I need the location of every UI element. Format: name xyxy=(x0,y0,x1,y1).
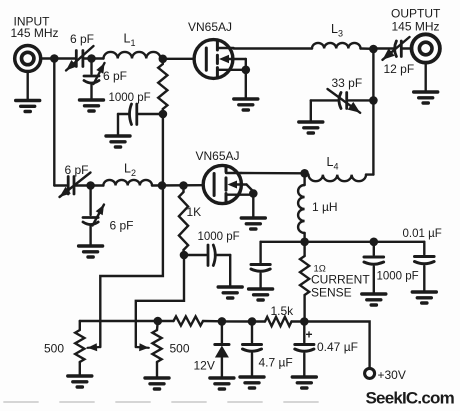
ground xyxy=(299,122,323,133)
wire xyxy=(372,49,374,100)
wire xyxy=(118,113,130,115)
svg-text:145 MHz: 145 MHz xyxy=(11,26,59,40)
svg-text:+30V: +30V xyxy=(378,368,406,382)
wire xyxy=(100,186,163,348)
transistor Q2 channel xyxy=(225,166,228,172)
svg-text:1000 pF: 1000 pF xyxy=(109,92,151,104)
wire xyxy=(305,241,374,243)
transistor Q2 gate bar xyxy=(213,174,216,196)
svg-text:1.5k: 1.5k xyxy=(271,304,295,318)
ground xyxy=(241,218,265,229)
capacitor C9 plates xyxy=(251,263,270,266)
wire xyxy=(245,59,247,70)
capacitor C4 arrow xyxy=(383,37,410,60)
wire xyxy=(373,242,375,255)
capacitor C11 0.01 uF plates xyxy=(415,255,435,258)
ground xyxy=(292,377,316,388)
transistor Q2 source stub xyxy=(226,193,253,195)
svg-text:12 pF: 12 pF xyxy=(384,62,415,76)
transistor Q1 VN65AJ body xyxy=(194,40,233,79)
transistor Q2 drain stub xyxy=(226,172,241,174)
wire xyxy=(74,184,91,186)
capacitor C2 6 pF plates xyxy=(84,75,99,78)
node xyxy=(86,181,95,190)
potentiometer R6 500 xyxy=(79,321,81,330)
node bias tap xyxy=(158,181,167,190)
transistor Q1 source arrow xyxy=(219,55,229,63)
wire xyxy=(361,47,374,50)
svg-text:1 µH: 1 µH xyxy=(312,200,338,214)
node xyxy=(87,54,96,63)
svg-text:VN65AJ: VN65AJ xyxy=(188,20,232,34)
wire xyxy=(162,114,164,186)
ground xyxy=(362,294,386,305)
svg-text:1K: 1K xyxy=(187,205,202,219)
inductor L5 1uH xyxy=(298,185,305,233)
wire xyxy=(92,57,104,59)
capacitor C7 6 pF plates xyxy=(83,216,98,219)
diode D1 12V zener xyxy=(221,321,223,344)
ground xyxy=(68,376,92,387)
capacitor C8 1000 pF plates xyxy=(207,245,210,266)
transistor Q1 gate bar xyxy=(205,48,208,70)
svg-text:6 pF: 6 pF xyxy=(70,32,94,46)
wire xyxy=(401,47,411,49)
svg-text:4.7 µF: 4.7 µF xyxy=(259,356,293,370)
node xyxy=(248,317,257,326)
capacitor C1 arrow xyxy=(66,46,94,71)
wire xyxy=(27,71,29,100)
wire xyxy=(259,242,261,263)
node xyxy=(159,110,168,119)
terminal +30V xyxy=(365,368,375,378)
wire xyxy=(91,184,104,186)
inductor L1 xyxy=(104,52,161,59)
wire xyxy=(222,320,252,323)
ground xyxy=(210,378,234,389)
svg-text:145 MHz: 145 MHz xyxy=(392,20,440,34)
svg-text:VN65AJ: VN65AJ xyxy=(196,149,240,163)
capacitor C13 0.47uF xyxy=(303,322,305,343)
transistor Q2 source arrow xyxy=(228,181,238,189)
ground xyxy=(145,378,169,389)
wire xyxy=(139,113,163,115)
node drain2 junction xyxy=(300,169,309,178)
wire xyxy=(161,57,163,59)
wiper arrow pot2 xyxy=(136,346,149,349)
wire xyxy=(54,184,66,186)
node source2 xyxy=(249,189,258,198)
scan artifact line xyxy=(4,401,320,403)
node xyxy=(300,238,309,247)
capacitor C5 arrow xyxy=(328,89,361,113)
svg-text:6 pF: 6 pF xyxy=(65,163,89,177)
wire xyxy=(234,47,313,49)
capacitor C6 6 pF plates xyxy=(67,177,70,195)
transistor Q1 source stub xyxy=(217,69,245,71)
wire xyxy=(136,255,184,347)
connector J1 INPUT coax xyxy=(15,46,41,72)
wire xyxy=(241,172,305,175)
capacitor C6 arrow xyxy=(60,173,91,198)
svg-text:CURRENT: CURRENT xyxy=(311,273,370,287)
wire xyxy=(89,186,91,216)
wire xyxy=(53,59,55,186)
wire xyxy=(259,274,261,290)
transistor Q1 drain stub xyxy=(217,47,233,49)
capacitor C12 4.7uF xyxy=(251,322,253,343)
wire xyxy=(152,184,203,187)
wire xyxy=(83,57,92,59)
resistor R2 1K xyxy=(182,186,184,193)
wire xyxy=(373,47,394,49)
svg-text:+: + xyxy=(306,328,313,342)
transistor Q2 VN65AJ body xyxy=(203,165,241,203)
svg-text:500: 500 xyxy=(44,342,64,356)
svg-text:500: 500 xyxy=(170,342,190,356)
svg-text:L3: L3 xyxy=(331,22,343,39)
wire xyxy=(349,99,374,101)
svg-text:L2: L2 xyxy=(124,162,136,179)
wire xyxy=(245,70,247,99)
wire xyxy=(366,173,373,175)
node pot2 top xyxy=(154,317,163,326)
svg-text:1000 pF: 1000 pF xyxy=(198,231,240,243)
ground xyxy=(80,100,104,111)
wire xyxy=(374,241,425,243)
svg-text:SENSE: SENSE xyxy=(311,286,352,300)
wire xyxy=(252,194,254,219)
wire xyxy=(423,266,425,292)
resistor R3 1 ohm xyxy=(303,242,305,256)
wiper arrow pot1 xyxy=(88,346,101,349)
wire xyxy=(54,57,75,59)
svg-text:12V: 12V xyxy=(194,359,215,373)
svg-text:0.01 µF: 0.01 µF xyxy=(403,228,442,240)
ground xyxy=(218,287,242,298)
svg-text:0.47 µF: 0.47 µF xyxy=(317,340,358,354)
wire xyxy=(423,242,425,255)
capacitor C3 1000 pF plates xyxy=(135,104,138,125)
wire xyxy=(40,57,54,59)
wire xyxy=(90,84,92,100)
potentiometer R7 500 xyxy=(156,321,159,330)
wire xyxy=(311,99,339,101)
ground xyxy=(234,99,258,110)
wire xyxy=(261,241,305,243)
node xyxy=(300,317,309,326)
connector J2 OUPTUT coax xyxy=(412,34,440,62)
ground xyxy=(414,92,438,103)
ground xyxy=(412,292,436,303)
inductor L2 xyxy=(103,180,152,186)
svg-text:33 pF: 33 pF xyxy=(332,76,363,90)
node gate1 xyxy=(159,55,168,64)
capacitor C5 33 pF plates xyxy=(345,93,348,109)
ground xyxy=(106,136,130,147)
node zener top xyxy=(218,317,227,326)
resistor R4 xyxy=(158,320,174,322)
capacitor C4 12 pF plates xyxy=(395,41,397,57)
wire xyxy=(304,322,369,369)
wire xyxy=(80,320,158,322)
svg-text:L4: L4 xyxy=(327,155,339,172)
capacitor C10 1000 pF plates xyxy=(364,256,384,259)
node xyxy=(180,251,189,260)
ground xyxy=(16,101,40,112)
wire xyxy=(163,58,194,60)
svg-text:6 pF: 6 pF xyxy=(110,219,134,233)
ground xyxy=(240,377,264,388)
svg-text:L1: L1 xyxy=(124,32,136,49)
capacitor C7 arrow xyxy=(93,205,105,226)
node output junction xyxy=(369,45,378,54)
resistor R1 xyxy=(162,59,164,64)
node xyxy=(370,238,379,247)
wire xyxy=(215,254,230,256)
wire xyxy=(184,254,206,256)
node gate2 xyxy=(179,181,188,190)
wire xyxy=(425,63,427,92)
ground xyxy=(79,246,103,257)
wire xyxy=(373,267,375,295)
capacitor C2 arrow xyxy=(94,63,105,84)
resistor R5 1.5k xyxy=(252,320,265,322)
node source1 xyxy=(242,66,251,75)
wire xyxy=(89,226,91,247)
svg-text:OUPTUT: OUPTUT xyxy=(391,7,441,21)
wire xyxy=(372,100,374,174)
capacitor C1 6 pF plates xyxy=(75,51,78,67)
svg-text:1000 pF: 1000 pF xyxy=(377,271,419,283)
wire xyxy=(90,59,92,75)
svg-text:6 pF: 6 pF xyxy=(103,69,127,83)
node 33pF junction xyxy=(369,96,378,105)
inductor L3 xyxy=(312,43,360,49)
ground xyxy=(249,289,273,300)
svg-text:SeekIC.com: SeekIC.com xyxy=(366,389,455,408)
node input junction xyxy=(50,54,59,63)
inductor L4 xyxy=(309,175,367,182)
transistor Q1 channel xyxy=(216,41,219,50)
